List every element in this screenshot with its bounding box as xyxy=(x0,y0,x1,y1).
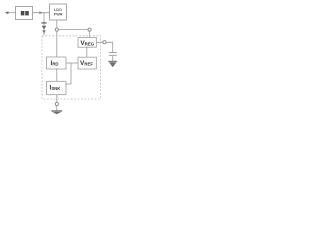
wire box1 to box2 xyxy=(33,12,50,14)
ground (right) xyxy=(108,61,117,62)
pin circle output xyxy=(103,41,106,44)
wire capacitor to ground xyxy=(112,56,114,61)
arrowhead on wire xyxy=(39,11,43,14)
svg-text:IRD: IRD xyxy=(51,60,59,67)
wire VREG right to output pin xyxy=(96,41,103,43)
svg-text:VREF: VREF xyxy=(80,60,93,67)
svg-text:LDO: LDO xyxy=(54,8,62,12)
block VREF xyxy=(78,57,96,69)
wire VREG bottom to VREF top xyxy=(86,47,88,57)
wire IRD right to VREF left (node) xyxy=(66,62,78,64)
wire branch down at junction x=44 xyxy=(43,13,45,35)
pin circle left xyxy=(55,28,58,31)
pin circle bottom xyxy=(55,102,58,105)
block U1 (host, box1) xyxy=(16,7,33,20)
wire ISNK bottom to ground xyxy=(56,95,58,103)
block U2 (LDO/PWR, box2) xyxy=(50,4,67,20)
wire between pins xyxy=(58,29,88,31)
svg-text:VREG: VREG xyxy=(80,40,94,47)
wire ISNK right stub xyxy=(66,83,71,85)
supply bar with double down arrowheads xyxy=(41,22,46,23)
block ISNK xyxy=(47,81,67,94)
wire left pin down to IRD xyxy=(56,31,58,57)
wire IRD bottom to ISNK top xyxy=(56,69,58,81)
ground (bottom) xyxy=(51,110,62,111)
box1 label (dark bold text) xyxy=(21,11,25,15)
wire box2 bottom to left pin xyxy=(56,20,58,28)
wire right pin down to VREG xyxy=(89,31,91,37)
block IRD xyxy=(47,57,67,69)
wire pin to capacitor xyxy=(106,42,113,52)
block VREG xyxy=(78,38,96,48)
pin circle right xyxy=(88,28,91,31)
capacitor C1 plates xyxy=(109,52,117,54)
input arrow (left) xyxy=(8,12,16,14)
wire vertical connector x=71 xyxy=(70,63,72,84)
svg-text:ISNK: ISNK xyxy=(50,85,62,92)
chip boundary (dashed box) xyxy=(42,36,101,99)
svg-text:PWR: PWR xyxy=(54,12,63,16)
